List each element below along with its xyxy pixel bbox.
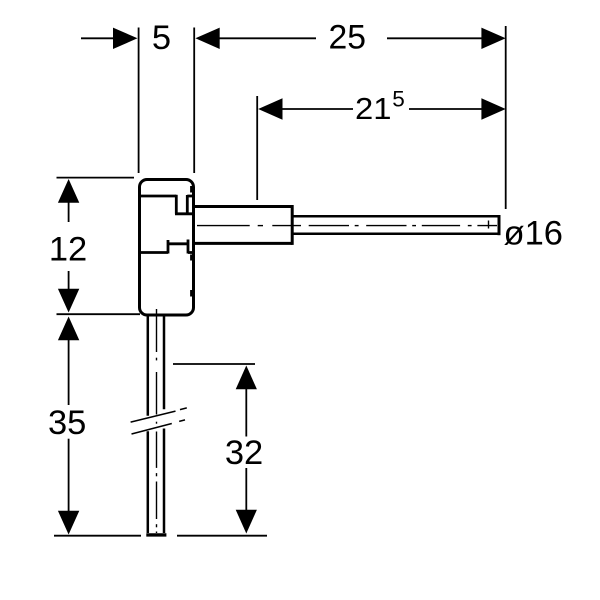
- body slot top link (line E): [187, 195, 193, 198]
- body slot vertical bottom (line I): [187, 240, 190, 254]
- svg-text:35: 35: [48, 404, 86, 442]
- dim 32 extension top: [173, 363, 255, 365]
- svg-text:21: 21: [355, 91, 392, 126]
- fitting body outline: [140, 180, 194, 316]
- dim 25 arrow right: [481, 28, 505, 49]
- extension line socket start (dim 21.5): [256, 96, 258, 200]
- body socket bore top (line C): [175, 212, 193, 215]
- dim 35 extension bottom: [54, 535, 141, 537]
- dim 35 arrow up: [58, 317, 79, 341]
- extension line pipe end right (dim 25/21.5): [505, 26, 507, 209]
- dim 5 arrow: [113, 28, 138, 49]
- svg-text:5: 5: [152, 19, 171, 57]
- dim 35 arrow down: [58, 511, 79, 535]
- svg-text:25: 25: [329, 18, 367, 56]
- body socket bore bottom (line H): [168, 242, 188, 245]
- dim 21.5 arrow right: [481, 98, 505, 119]
- centerline horizontal: [197, 225, 497, 227]
- dim 25 arrow left: [195, 28, 219, 49]
- pipe end cap right: [498, 215, 501, 235]
- body inner step top (line A): [139, 195, 176, 198]
- svg-text:5: 5: [392, 86, 405, 111]
- dim 12 line lower: [68, 271, 70, 291]
- centerline vertical: [156, 309, 158, 533]
- dim 12/35 extension middle: [57, 313, 141, 315]
- body slot bottom link (line J): [188, 251, 193, 254]
- centerline tick near pipe end: [488, 221, 490, 229]
- dim 21.5 line right: [409, 108, 483, 110]
- dim 12 extension top: [57, 177, 135, 179]
- dim 5 leader line: [81, 37, 116, 39]
- dim 12 arrow up: [58, 179, 79, 203]
- dim 32 line lower: [245, 468, 247, 511]
- dim 35 line lower: [68, 439, 70, 512]
- dim 35 line upper: [68, 339, 70, 406]
- vertical pipe right edge: [163, 316, 166, 533]
- body slot vertical top (line D): [186, 195, 189, 214]
- pipe break mark upper: [131, 408, 187, 422]
- dim 12 arrow down: [58, 289, 79, 313]
- press socket (thick pipe section): [194, 205, 292, 245]
- vertical pipe end cap: [146, 533, 166, 536]
- pipe d16 horizontal: [292, 216, 499, 234]
- svg-text:32: 32: [225, 434, 263, 472]
- hidden pipe edge dashes inside right wall: [190, 186, 192, 297]
- dim 21.5 arrow left: [258, 98, 282, 119]
- body step bottom vertical (line G): [167, 240, 170, 254]
- vertical pipe left edge: [147, 316, 150, 533]
- dim 32 extension bottom: [177, 535, 267, 537]
- extension line body right (dim 5/25): [193, 28, 195, 174]
- dim 25 line left: [218, 37, 316, 39]
- dim 21.5 line left: [281, 108, 353, 110]
- pipe break mark lower: [132, 420, 186, 434]
- svg-text:12: 12: [49, 231, 87, 269]
- svg-text:ø16: ø16: [504, 214, 563, 252]
- body inner step top vertical (line B): [175, 195, 178, 214]
- dim 32 arrow up: [236, 366, 257, 390]
- dim 12 line upper: [68, 201, 70, 222]
- dim 25 line right: [387, 37, 483, 39]
- dim 32 line upper: [245, 388, 247, 437]
- extension line body left (dim 5): [138, 28, 140, 174]
- dim 32 arrow down: [236, 510, 257, 534]
- body inner step bottom (line F): [139, 251, 168, 254]
